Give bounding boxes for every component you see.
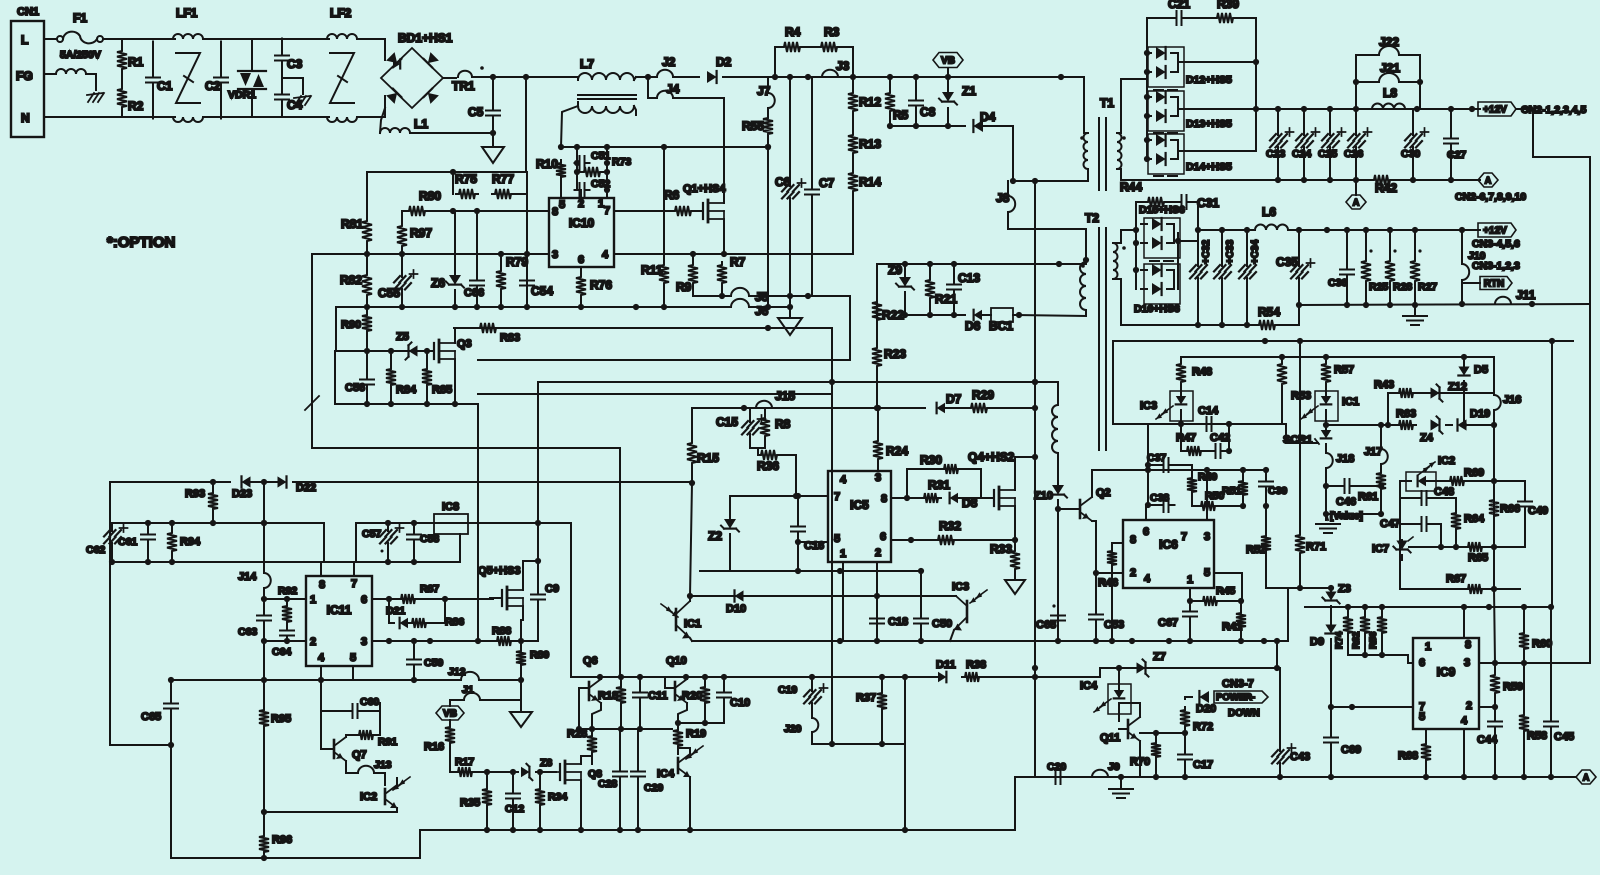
wire R13 to R14 <box>852 156 854 170</box>
svg-text:C46: C46 <box>1336 496 1356 508</box>
svg-text:D7: D7 <box>946 392 962 406</box>
svg-text:R90: R90 <box>341 319 361 331</box>
svg-text:Z2: Z2 <box>708 529 722 543</box>
wire Z9 bottom rail <box>905 314 965 316</box>
resistor R91 <box>356 711 380 740</box>
junction pin8 <box>904 495 910 501</box>
label C8 <box>920 105 936 119</box>
label Q11 <box>1100 732 1120 744</box>
resistor R11 <box>659 262 669 286</box>
wire C51 left <box>576 147 578 190</box>
wire R51 row <box>1207 469 1266 471</box>
junction x1494 <box>1491 478 1497 550</box>
capacitor C68 <box>1051 604 1065 625</box>
wire c60 right <box>379 703 381 711</box>
svg-text:7: 7 <box>604 205 610 217</box>
wire Z9 top rail <box>877 263 1059 265</box>
shunt IC7 <box>1393 537 1413 560</box>
resistor R56 <box>1377 607 1387 648</box>
svg-text:R38: R38 <box>966 659 986 671</box>
label R95 <box>271 713 291 725</box>
label R7 <box>730 255 746 269</box>
junction BC1 out <box>1016 312 1022 318</box>
label D8 <box>962 496 978 510</box>
capacitor C24 electrolytic <box>1296 109 1320 180</box>
svg-text:T2: T2 <box>1085 211 1099 225</box>
label R92 <box>278 585 297 597</box>
label R4 <box>785 25 801 39</box>
wire c60 left <box>320 680 322 711</box>
wire pin7 left <box>1331 706 1413 708</box>
svg-text:J17: J17 <box>1364 446 1382 458</box>
ground slash C4 <box>294 96 311 105</box>
resistor R31 <box>921 493 941 503</box>
label J9 <box>1108 761 1120 773</box>
wire R11 bottom <box>663 286 665 307</box>
junction y341 <box>1262 338 1555 344</box>
svg-text:5: 5 <box>350 652 356 664</box>
wire pin8 up <box>320 562 322 576</box>
transistor Q5 mosfet <box>493 587 523 609</box>
svg-text:J18: J18 <box>1336 453 1354 465</box>
capacitor C49 <box>1494 481 1532 547</box>
IC IC5 <box>828 471 891 562</box>
resistor R73 <box>581 167 603 177</box>
resistor R54 <box>1256 320 1278 330</box>
wire R7 bottom <box>721 286 723 296</box>
wire pin1 down <box>1189 588 1191 601</box>
jumper J10 <box>1462 230 1469 287</box>
wire R97 bottom <box>401 249 403 254</box>
svg-text:C3: C3 <box>287 57 303 71</box>
wire top rail L <box>122 38 175 40</box>
IC IC11 <box>306 576 372 666</box>
junction C5 gnd <box>490 130 496 136</box>
wire D7-R29 <box>946 407 968 409</box>
resistor R30 <box>941 464 961 474</box>
diode pair D15+HS6 <box>1141 218 1180 258</box>
svg-text:4: 4 <box>840 474 847 486</box>
svg-text:C29: C29 <box>644 782 663 794</box>
resistor R59 <box>1490 589 1500 707</box>
svg-text:C35: C35 <box>1276 255 1298 269</box>
svg-text:C42: C42 <box>1210 432 1230 444</box>
svg-text:C69: C69 <box>1341 744 1361 756</box>
label D11 <box>936 659 956 671</box>
label T2 <box>1085 211 1099 225</box>
wire pin8 right <box>891 497 921 499</box>
label R1 <box>128 55 144 69</box>
resistor R24 <box>873 408 883 471</box>
capacitor C3 <box>275 39 289 78</box>
svg-text:R77: R77 <box>492 172 514 186</box>
IC IC6 <box>1123 520 1214 588</box>
wire J2122 right <box>1419 55 1421 109</box>
label IC1 <box>684 618 701 630</box>
resistor R25 <box>1361 230 1373 305</box>
junction x478 pin3 <box>475 638 481 644</box>
wire q5 drain <box>523 561 538 590</box>
svg-text:R27: R27 <box>1418 281 1437 293</box>
diode D23 <box>242 476 251 487</box>
label IC4 tr <box>657 768 675 780</box>
capacitor C18 <box>870 614 884 629</box>
svg-text:C9: C9 <box>545 583 559 595</box>
svg-text:TR1: TR1 <box>452 79 475 93</box>
label C6 <box>775 175 791 189</box>
wire x148 down <box>147 523 149 530</box>
svg-text:*:OPTION: *:OPTION <box>107 234 175 251</box>
label C25 <box>1318 148 1337 160</box>
wire R4 left down <box>774 47 776 77</box>
thyristor SCR1 <box>1315 425 1331 453</box>
wire R52 bottom <box>1266 553 1288 588</box>
svg-text:J16: J16 <box>1503 394 1521 406</box>
wire C37 col <box>1147 424 1149 505</box>
wire q8 drain <box>580 756 582 764</box>
label R52 <box>1246 544 1266 556</box>
svg-text:R10: R10 <box>536 157 558 171</box>
svg-text:C12: C12 <box>505 803 524 815</box>
junction r17 <box>484 769 516 775</box>
label DOWN <box>1228 708 1260 719</box>
label R32 <box>939 519 961 533</box>
svg-text:R3: R3 <box>824 25 840 39</box>
svg-text:R74: R74 <box>1334 631 1345 649</box>
svg-text:C44: C44 <box>1477 734 1498 746</box>
svg-text:C10: C10 <box>730 697 750 709</box>
label IC7 <box>1372 543 1389 555</box>
resistor R63 <box>1396 420 1416 430</box>
wire rail to J3 <box>790 76 820 78</box>
diode D5 <box>1458 357 1469 425</box>
diode D9 <box>1325 625 1336 738</box>
svg-text:C17: C17 <box>1193 759 1213 771</box>
label D16+HS6 <box>1134 303 1180 315</box>
svg-text:RTN: RTN <box>1484 279 1505 290</box>
jumper J5 <box>731 288 749 296</box>
label C58 <box>420 533 439 545</box>
resistor R50 <box>1192 501 1218 511</box>
label Z7 <box>1153 651 1166 663</box>
transistor Q6 <box>579 677 601 729</box>
svg-text:J2: J2 <box>662 55 676 69</box>
jumper J1 <box>464 693 480 700</box>
wire Q4 drain <box>1015 457 1035 490</box>
svg-text:R66: R66 <box>1500 503 1520 515</box>
wire anode col to winding <box>1121 229 1136 231</box>
label R18 <box>598 690 618 702</box>
wire D8 to Q4 <box>959 497 994 499</box>
svg-text:C55: C55 <box>378 286 400 300</box>
wire R4-R3 <box>803 46 818 48</box>
junction pin4 <box>318 677 324 683</box>
svg-text:7: 7 <box>351 578 357 590</box>
wire J15 left down <box>692 408 706 440</box>
svg-text:L: L <box>21 33 28 47</box>
svg-text:Z1: Z1 <box>962 84 976 98</box>
label R68 <box>1398 750 1418 762</box>
junction y77 caps <box>772 74 811 80</box>
wire j1 row <box>450 699 462 701</box>
wire j12 right <box>479 679 521 681</box>
label J1 <box>462 684 474 696</box>
wire D13 out <box>1178 108 1256 110</box>
label C9 <box>545 583 559 595</box>
svg-text:R23: R23 <box>884 347 906 361</box>
svg-text:CN1: CN1 <box>17 6 39 18</box>
wire x478 down <box>477 404 479 641</box>
svg-text:J3: J3 <box>836 59 850 73</box>
svg-text:4: 4 <box>602 249 609 261</box>
label C19 <box>778 684 797 696</box>
wire D15 anode col <box>1135 224 1137 289</box>
label Z6 <box>431 276 445 290</box>
wire x336 down <box>335 307 337 351</box>
svg-text:R75: R75 <box>455 172 477 186</box>
label R85 <box>432 384 452 396</box>
svg-text:C39: C39 <box>1268 485 1287 497</box>
junction r38 <box>1032 674 1038 680</box>
label C39 <box>1268 485 1287 497</box>
wire x1388 <box>1387 393 1389 425</box>
wire x265 col <box>263 523 265 571</box>
svg-text:C65: C65 <box>141 711 161 723</box>
junction cathode <box>1253 59 1259 112</box>
label R91 <box>378 736 397 748</box>
wire x324 down <box>323 523 325 562</box>
resistor R23 <box>872 345 882 408</box>
label D19 <box>1470 408 1490 420</box>
svg-text:R45: R45 <box>1216 585 1235 597</box>
svg-text:N: N <box>21 111 30 125</box>
ground earth J9 <box>1109 777 1133 798</box>
wire pin4 down <box>1463 729 1465 778</box>
svg-text:LF1: LF1 <box>176 6 198 20</box>
diode D7 <box>937 403 945 414</box>
wire R22 col <box>876 295 878 345</box>
svg-text:POWER-: POWER- <box>1216 692 1255 703</box>
svg-text:2: 2 <box>1466 700 1472 712</box>
junction out rail <box>1195 227 1250 233</box>
svg-text:C59: C59 <box>424 657 443 669</box>
label C65 <box>141 711 161 723</box>
wire R81 top <box>366 172 368 218</box>
svg-text:R28: R28 <box>1393 281 1412 293</box>
wire +12V row <box>1256 108 1480 110</box>
label R77 <box>492 172 514 186</box>
label R48 <box>1192 366 1212 378</box>
svg-text:J12: J12 <box>448 666 466 678</box>
wire y680 rail <box>172 679 459 681</box>
svg-text:A: A <box>1485 176 1492 186</box>
svg-text:R83: R83 <box>500 332 520 344</box>
label R19 <box>686 728 706 740</box>
junction y357 <box>1279 354 1467 360</box>
svg-text:C50: C50 <box>932 618 952 630</box>
wire gnd stub <box>789 296 791 318</box>
svg-text:R62: R62 <box>1351 632 1362 649</box>
resistor R44 <box>1145 197 1167 207</box>
label R70 <box>1130 756 1150 768</box>
svg-text:R55: R55 <box>742 119 764 133</box>
wire D10 row <box>690 595 956 597</box>
wire y172 <box>367 171 527 173</box>
svg-text:D4: D4 <box>980 110 996 124</box>
capacitor C53 <box>1089 573 1103 641</box>
svg-text:C15: C15 <box>716 415 738 429</box>
zener Z2 <box>721 519 739 571</box>
junction y858 <box>261 855 267 861</box>
wire R2 to N <box>121 110 123 117</box>
label C54 <box>531 284 553 298</box>
jumper J17 <box>1381 425 1388 470</box>
label C16 <box>804 540 824 552</box>
svg-text:R65: R65 <box>1468 552 1488 564</box>
resistor R21 <box>925 264 935 315</box>
svg-text:R13: R13 <box>859 137 881 151</box>
wire D12 out <box>1178 61 1256 63</box>
wire x110 down <box>109 482 111 523</box>
wire D14 out <box>1178 150 1256 152</box>
label C51 <box>591 150 610 162</box>
wire C3 top <box>281 39 283 49</box>
label C44 <box>1477 734 1498 746</box>
wire z5 row <box>335 350 434 352</box>
label R93 <box>185 488 205 500</box>
capacitor C48 <box>1400 491 1456 510</box>
label C55 <box>378 286 400 300</box>
junction D5 bot <box>1461 422 1497 428</box>
junction J6 end <box>787 304 793 310</box>
resistor R28b <box>587 733 597 764</box>
svg-text:R71: R71 <box>1306 541 1326 553</box>
label C48 <box>1434 486 1454 498</box>
wire y562 rail <box>110 561 460 563</box>
wire C4 bottom <box>281 106 283 117</box>
junction y523b <box>385 520 417 526</box>
capacitor C56 <box>360 351 374 404</box>
label D13+HS5 <box>1186 118 1232 130</box>
resistor R51 <box>1238 470 1248 506</box>
svg-text:3: 3 <box>552 249 558 261</box>
svg-text:D9: D9 <box>1310 636 1324 648</box>
IC IC10 <box>549 198 614 267</box>
label Z9 <box>888 263 902 277</box>
wire x527 down <box>526 172 528 307</box>
junction gate row <box>442 596 448 602</box>
wire x110 low2 <box>109 562 111 745</box>
label J15 <box>775 389 795 403</box>
svg-text:C14: C14 <box>1198 405 1219 417</box>
label R87 <box>420 583 439 595</box>
svg-text:R93: R93 <box>185 488 205 500</box>
wire fuse to rail <box>103 38 122 40</box>
svg-text:C47: C47 <box>1380 518 1400 530</box>
wire y424 row <box>1113 423 1286 425</box>
label Q1+HS4 <box>683 183 726 195</box>
wire q8 source <box>580 780 582 830</box>
wire BC1 out <box>1013 315 1086 316</box>
capacitor C51 <box>575 156 590 170</box>
junction C7 bottom <box>805 293 811 299</box>
wire C52 to pin2 <box>580 190 582 198</box>
svg-text:D15+HS6: D15+HS6 <box>1139 204 1185 216</box>
svg-text:R7: R7 <box>730 255 746 269</box>
svg-text:C2: C2 <box>205 79 221 93</box>
capacitor C64 <box>280 625 294 644</box>
wire R29 right <box>988 407 1035 409</box>
wire x1113 down <box>1112 341 1114 424</box>
crystal BC1 <box>991 308 1013 322</box>
transistor Q8 mosfet <box>551 761 581 783</box>
wire pin7 up <box>353 562 355 576</box>
junction IC1 node <box>687 480 695 599</box>
label R63 <box>1396 408 1416 420</box>
wire N rail <box>44 116 175 118</box>
label D2 <box>716 55 732 69</box>
resistor R22 <box>872 299 882 323</box>
inductor L8 <box>1372 104 1405 110</box>
wire pin1 low <box>842 571 844 641</box>
label R50 <box>1205 490 1224 502</box>
svg-text:R6: R6 <box>664 188 680 202</box>
junction c65 bot <box>168 742 174 748</box>
label Q7 <box>352 749 367 761</box>
wire y668 row <box>1100 667 1277 669</box>
svg-text:6: 6 <box>1143 526 1149 538</box>
wire R62 join <box>1364 648 1366 655</box>
junction y680 <box>261 677 417 683</box>
resistor R96 <box>259 833 269 858</box>
label J11 <box>1516 288 1536 302</box>
label C62 <box>86 544 105 556</box>
resistor R10 <box>556 160 566 180</box>
svg-text:IC2: IC2 <box>1438 455 1455 467</box>
label IC2 led <box>1438 455 1455 467</box>
svg-text:Q1+HS4: Q1+HS4 <box>683 183 726 195</box>
label R41 <box>1222 621 1242 633</box>
wire z5 left col <box>334 351 336 404</box>
label C27 <box>1447 149 1466 161</box>
svg-text:R91: R91 <box>378 736 397 748</box>
wire q7 base <box>321 711 334 749</box>
wire T1 sec to anode col <box>1121 78 1147 80</box>
junction y830 <box>484 827 908 833</box>
label D4 <box>980 110 996 124</box>
jumper J14 <box>264 573 271 588</box>
label C37 <box>1147 452 1166 464</box>
svg-text:R25: R25 <box>1369 281 1388 293</box>
wire x1590 down <box>1524 304 1590 663</box>
label C7 <box>819 176 835 190</box>
wire C42 up <box>1228 424 1230 451</box>
label D10 <box>726 603 746 615</box>
resistor R72 <box>1180 707 1190 752</box>
pin FG <box>16 69 33 83</box>
wire J18 down <box>1325 468 1327 520</box>
wire rail y607 <box>1305 606 1552 608</box>
label R42 <box>1375 181 1397 195</box>
wire C5 bottom <box>492 122 494 147</box>
label C18 <box>888 616 908 628</box>
label R20 <box>682 690 702 702</box>
resistor R93 <box>208 482 218 523</box>
terminal VB2 <box>436 706 464 720</box>
label C63 <box>238 626 257 638</box>
junction d2322 <box>210 479 267 485</box>
wire row y425 <box>1326 424 1394 426</box>
